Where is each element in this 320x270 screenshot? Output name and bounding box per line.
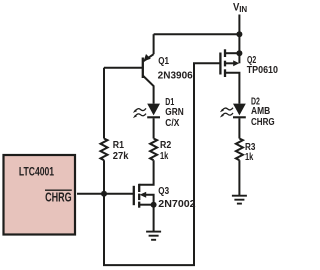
svg-text:Q1: Q1 <box>158 56 169 67</box>
svg-text:CHRG: CHRG <box>251 117 275 128</box>
svg-text:Q3: Q3 <box>158 186 169 197</box>
svg-text:C/X: C/X <box>165 118 179 129</box>
svg-text:TP0610: TP0610 <box>247 65 279 76</box>
svg-text:27k: 27k <box>113 151 129 162</box>
svg-text:R2: R2 <box>160 140 172 151</box>
svg-text:IN: IN <box>239 5 247 14</box>
svg-text:LTC4001: LTC4001 <box>19 165 54 179</box>
svg-text:GRN: GRN <box>165 107 183 118</box>
svg-text:2N7002: 2N7002 <box>158 199 196 210</box>
svg-text:1k: 1k <box>160 151 169 162</box>
svg-text:1k: 1k <box>245 152 254 163</box>
svg-text:AMB: AMB <box>251 106 270 117</box>
svg-text:R1: R1 <box>113 140 125 151</box>
svg-text:CHRG: CHRG <box>45 189 72 204</box>
svg-text:2N3906: 2N3906 <box>158 71 194 82</box>
